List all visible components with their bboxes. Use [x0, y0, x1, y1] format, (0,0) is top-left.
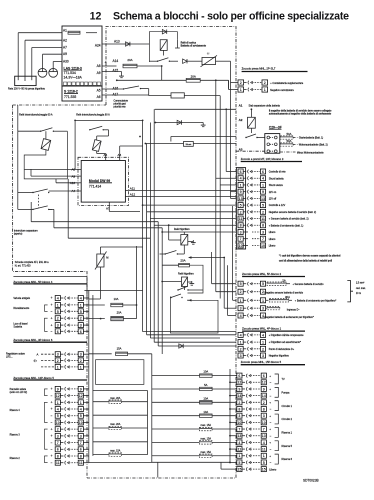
fuse 10A feed [152, 415, 200, 417]
wire A14 junction down [161, 66, 163, 80]
wire A8 to A14 fuse [102, 65, 117, 67]
svg-text:5: 5 [240, 204, 242, 208]
svg-text:Zoccolo presa MNL, 12P-blocco: Zoccolo presa MNL, 12P-blocco 5 [13, 376, 54, 380]
wire A5 to selector switch [102, 88, 123, 90]
svg-text:50A: 50A [287, 139, 292, 143]
svg-text:10A: 10A [203, 396, 208, 400]
5P-blocco2 pin 4 [238, 313, 243, 318]
fuse max. 15A feed [152, 441, 200, 443]
varistor R1 with arrows [202, 57, 216, 64]
svg-text:A9: A9 [97, 71, 101, 75]
module Modul DW 99 771.414 inner [81, 161, 125, 203]
svg-text:6: 6 [57, 330, 59, 334]
3P-blocco6 pin 2 [55, 358, 60, 363]
svg-text:Punto di derivazione D+: Punto di derivazione D+ [269, 348, 295, 351]
svg-text:12: 12 [262, 381, 266, 385]
svg-text:4: 4 [240, 314, 242, 318]
svg-text:Relè interruttore/scheggia 60: Relè interruttore/scheggia 60 A [19, 113, 53, 116]
svg-text:14,3V—18A: 14,3V—18A [64, 75, 83, 79]
svg-text:6: 6 [57, 448, 59, 452]
svg-text:Negativo sensore batteria di s: Negativo sensore batteria di servizio (b… [269, 211, 317, 214]
fuse 10A feed [152, 375, 200, 377]
svg-text:+ Sensore batteria di servizio: + Sensore batteria di servizio (batt. 2) [269, 218, 309, 221]
svg-text:−: − [51, 421, 53, 425]
svg-text:2: 2 [57, 359, 59, 363]
svg-text:5: 5 [238, 461, 240, 465]
svg-text:2: 2 [240, 81, 242, 85]
svg-text:6: 6 [80, 330, 82, 334]
module pin A12 [125, 196, 128, 198]
wire to modul pin A10 [56, 182, 78, 184]
svg-text:Rete 230 V~50 Hz presa frigori: Rete 230 V~50 Hz presa frigorifero [8, 87, 46, 90]
svg-text:9: 9 [238, 387, 240, 391]
svg-text:8: 8 [240, 224, 242, 228]
wire right col 5P4 down [84, 289, 88, 291]
svg-text:Negativo carrozzatura: Negativo carrozzatura [270, 89, 294, 92]
svg-text:(aperto): (aperto) [14, 233, 23, 236]
svg-text:A1: A1 [239, 104, 243, 108]
svg-text:+: + [51, 401, 53, 405]
gang dashed link [38, 195, 40, 208]
svg-text:+: + [269, 401, 271, 405]
10P pin 10 Libero [238, 243, 243, 248]
svg-text:A16: A16 [113, 86, 119, 90]
svg-text:+: + [269, 387, 271, 391]
ground bus 15P [229, 369, 231, 462]
svg-text:3: 3 [262, 307, 264, 311]
svg-text:11: 11 [261, 217, 265, 221]
svg-text:5: 5 [262, 204, 264, 208]
diode D1 on A13 line [126, 42, 130, 46]
bus to 4P connector wires [143, 331, 236, 333]
module pin A9 stub [78, 175, 81, 177]
svg-text:Riserva 6: Riserva 6 [282, 458, 293, 461]
wire main 12V rail [117, 79, 186, 81]
svg-text:11: 11 [79, 461, 83, 465]
svg-text:5: 5 [263, 461, 265, 465]
switch K2 [40, 131, 41, 132]
svg-text:9: 9 [263, 387, 265, 391]
4P-blocco1 pin 1 [238, 340, 243, 345]
10P pin 11 + Sensore batteria di servizio (batt. 2) [238, 216, 243, 221]
relay K2 coil [41, 139, 51, 151]
svg-text:Riserva 2: Riserva 2 [10, 457, 21, 460]
svg-text:+: + [51, 296, 53, 300]
10P pin 3 Libero [238, 229, 243, 234]
svg-text:Il negativo della batteria di: Il negativo della batteria di servizio d… [269, 110, 332, 113]
svg-text:15: 15 [262, 468, 266, 472]
feed fuse max20A a [93, 401, 109, 403]
wire to modul pin A9 [31, 175, 78, 177]
relay K3 above module [92, 140, 101, 152]
15P pin 6 [237, 373, 242, 378]
fridge box [188, 265, 204, 293]
left fuse 15A [89, 353, 112, 355]
svg-text:Relè frigorifero: Relè frigorifero [174, 228, 190, 231]
10P connector housing [236, 168, 245, 249]
15P pin 2 [237, 400, 242, 405]
wire bus y222 [30, 202, 32, 222]
svg-text:4: 4 [57, 407, 59, 411]
earth circle 2 [49, 68, 58, 77]
15P pin 12 [237, 380, 242, 385]
svg-text:+ Batteria di avviamento (batt: + Batteria di avviamento (batt. 1) [269, 224, 304, 227]
svg-text:1: 1 [264, 88, 266, 92]
svg-text:Riserva 4: Riserva 4 [10, 409, 21, 412]
svg-text:1,5 mm²: 1,5 mm² [356, 282, 365, 285]
svg-text:Shunt batteria: Shunt batteria [269, 177, 285, 180]
switch of charge relay [157, 61, 158, 62]
fuse 10A feed [152, 401, 200, 403]
svg-text:Scaletta: Scaletta [13, 326, 22, 329]
svg-text:12: 12 [79, 394, 83, 398]
svg-text:5: 5 [262, 282, 264, 286]
svg-text:10: 10 [262, 421, 266, 425]
wires into 10P connector [143, 204, 236, 206]
stub wires right of connectors [83, 297, 88, 299]
fridge relay 1 [181, 235, 188, 246]
separator relay switch [245, 137, 246, 138]
right drop wires [216, 177, 236, 179]
svg-text:priorità rete: priorità rete [114, 106, 127, 109]
svg-text:20A: 20A [117, 311, 122, 315]
module pin A11 [125, 190, 128, 192]
svg-text:4: 4 [80, 407, 82, 411]
svg-text:3: 3 [57, 353, 59, 357]
module pin A10 stub [78, 182, 81, 184]
module pin A4 stub [78, 190, 81, 192]
svg-text:max. 15A: max. 15A [201, 438, 212, 441]
svg-text:M: M [106, 256, 108, 260]
svg-text:5: 5 [57, 310, 59, 314]
svg-text:−: − [51, 310, 53, 314]
svg-text:6: 6 [238, 374, 240, 378]
15P pin 4 [237, 440, 242, 445]
module pin A8 stub [78, 168, 81, 170]
ground fridge relay 1 [188, 241, 193, 243]
svg-text:13: 13 [237, 434, 241, 438]
svg-text:−: − [270, 447, 272, 451]
left feeder bus [151, 354, 153, 463]
wire from boundary to switch K2 [17, 105, 19, 131]
svg-text:2: 2 [262, 347, 264, 351]
wire A2 to mains plug [25, 39, 62, 41]
15P pin 15 [237, 467, 242, 472]
svg-text:13: 13 [261, 197, 265, 201]
svg-text:10 m: 10 m [356, 293, 361, 295]
svg-text:11: 11 [262, 448, 266, 452]
svg-text:SDT0023B: SDT0023B [303, 479, 319, 483]
svg-text:1: 1 [240, 88, 242, 92]
svg-text:−: − [270, 434, 272, 438]
5P-blocco2 pin 3 [238, 306, 243, 311]
wire into fridge relay 1 [168, 225, 170, 240]
svg-text:+ Contabatteria supplementare: + Contabatteria supplementare [270, 82, 304, 85]
diode D5 with ground [155, 122, 200, 124]
svg-text:Riscaldamento: Riscaldamento [13, 307, 29, 310]
bracket 5P4 b [45, 318, 48, 331]
bottom-left wire rectangle [96, 360, 144, 385]
svg-text:A13: A13 [114, 40, 120, 44]
staircase wires into 5P blocco2 [211, 252, 213, 284]
svg-text:1: 1 [262, 341, 264, 345]
svg-text:7: 7 [263, 427, 265, 431]
svg-text:6: 6 [262, 170, 264, 174]
svg-text:A9: A9 [63, 52, 67, 56]
svg-text:1: 1 [57, 401, 59, 405]
svg-text:Minus Wohnraumbatterie: Minus Wohnraumbatterie [297, 151, 324, 154]
svg-text:2: 2 [240, 210, 242, 214]
svg-text:6: 6 [263, 374, 265, 378]
arrow feed wire 1 [191, 257, 225, 259]
svg-text:−: − [270, 394, 272, 398]
svg-text:5: 5 [57, 414, 59, 418]
wire to modul pin A4 [49, 190, 78, 192]
svg-text:A: A [37, 352, 39, 356]
svg-text:7: 7 [240, 237, 242, 241]
svg-text:6: 6 [240, 170, 242, 174]
4P-blocco1 pin 3 [238, 353, 243, 358]
svg-text:10A: 10A [203, 370, 208, 374]
svg-text:1: 1 [80, 401, 82, 405]
fridge relay 2 [182, 277, 188, 287]
svg-text:1: 1 [262, 183, 264, 187]
15P pin 11 [237, 447, 242, 452]
center bus wires [136, 246, 138, 319]
svg-text:15A: 15A [117, 347, 122, 351]
fuse 30A start battery [266, 299, 269, 301]
negative return bus [147, 391, 149, 455]
svg-text:8: 8 [262, 224, 264, 228]
2P-SL7 pin 2 [238, 80, 244, 85]
svg-text:20A: 20A [127, 58, 132, 62]
svg-text:max. 15A: max. 15A [201, 424, 212, 427]
svg-text:* I cavi del frigorifero devon: * I cavi del frigorifero devono essere s… [279, 254, 341, 257]
svg-text:8: 8 [238, 407, 240, 411]
svg-text:2: 2 [80, 317, 82, 321]
svg-text:5: 5 [240, 282, 242, 286]
5P-blocco2 pin 5 [238, 281, 243, 286]
svg-text:10A: 10A [203, 410, 208, 414]
collector bus B [92, 295, 94, 456]
svg-text:13: 13 [262, 434, 266, 438]
svg-text:7: 7 [238, 427, 240, 431]
wire top 5P4 [13, 275, 87, 277]
svg-text:−: − [270, 421, 272, 425]
5P-blocco2 pin 2 [238, 289, 243, 294]
svg-text:1: 1 [80, 303, 82, 307]
wire A6 to selector switch [102, 94, 149, 96]
ground fridge relay 2 [188, 281, 192, 283]
svg-text:−: − [270, 461, 272, 465]
svg-text:3: 3 [80, 434, 82, 438]
wire A9 to earth circle 1 [43, 53, 63, 55]
svg-text:7: 7 [80, 441, 82, 445]
10P pin 5 Controllo a 12V [238, 203, 243, 208]
svg-text:Zoccolo presa MNL, 2P-SL7: Zoccolo presa MNL, 2P-SL7 [242, 67, 276, 71]
5P-blocco2 pin 1 [238, 298, 243, 303]
svg-text:6: 6 [80, 448, 82, 452]
wire into fridge relay 2 [162, 281, 181, 283]
separator ganged switch lower [32, 209, 33, 210]
feed loop box [170, 297, 218, 334]
svg-text:12: 12 [56, 394, 60, 398]
svg-text:3: 3 [240, 354, 242, 358]
svg-text:10: 10 [239, 244, 243, 248]
svg-text:LAS 1218-3: LAS 1218-3 [64, 66, 82, 70]
svg-text:A17: A17 [113, 93, 119, 97]
svg-text:−: − [270, 407, 272, 411]
svg-text:A8: A8 [97, 64, 101, 68]
svg-text:4: 4 [238, 441, 240, 445]
svg-text:1: 1 [240, 183, 242, 187]
mains/gas priority selector switch [123, 88, 124, 89]
svg-text:+: + [51, 387, 53, 391]
svg-text:771.534: 771.534 [64, 71, 76, 75]
svg-text:5: 5 [80, 310, 82, 314]
wire loop left relay [24, 131, 67, 179]
wire left drop to lower switch [17, 193, 19, 210]
fridge relay 1 switch [165, 253, 166, 254]
svg-text:A14: A14 [113, 59, 119, 63]
ingresso D+ fuse wire [267, 307, 280, 310]
svg-text:Circuito 2: Circuito 2 [282, 418, 293, 421]
wire thermal sensor to valve pin [99, 267, 101, 299]
svg-text:11: 11 [237, 448, 241, 452]
svg-text:+: + [269, 454, 271, 458]
svg-text:3: 3 [240, 230, 242, 234]
svg-text:771.414: 771.414 [89, 185, 101, 189]
negative wire 12P pin11 to ground bus [89, 462, 152, 464]
svg-text:A24: A24 [95, 44, 101, 48]
svg-text:A10: A10 [70, 181, 76, 185]
bracket 5P4 a [45, 305, 48, 311]
svg-text:−: − [270, 380, 272, 384]
svg-text:TV: TV [282, 378, 286, 381]
svg-text:cavi di alimentazione dalla ba: cavi di alimentazione dalla batteria ai … [279, 259, 332, 262]
svg-text:1: 1 [57, 365, 59, 369]
svg-text:12: 12 [237, 381, 241, 385]
feed fuse max20A b [93, 427, 109, 429]
svg-text:4: 4 [262, 333, 264, 337]
svg-text:20A: 20A [180, 259, 185, 263]
svg-text:771.535: 771.535 [64, 95, 76, 99]
svg-text:+: + [51, 316, 53, 320]
svg-text:max. 20A: max. 20A [110, 423, 121, 426]
svg-text:2: 2 [80, 428, 82, 432]
svg-text:+: + [269, 414, 271, 418]
svg-text:8: 8 [80, 454, 82, 458]
3P-blocco6 pin 1 [55, 364, 60, 369]
svg-text:+: + [51, 407, 53, 411]
svg-text:4: 4 [262, 177, 264, 181]
svg-text:2: 2 [240, 290, 242, 294]
10P pin 8 + Batteria di avviamento (batt. 1) [238, 223, 243, 228]
solar minus wire [41, 366, 55, 368]
stub 15P pin 15 [221, 468, 237, 470]
svg-text:3: 3 [262, 230, 264, 234]
wire drop 2P [228, 80, 230, 89]
fuse 5A feed [152, 388, 200, 390]
svg-text:+: + [51, 454, 53, 458]
svg-text:↑↑: ↑↑ [207, 51, 211, 55]
svg-text:automaticamente al negativo de: automaticamente al negativo della batter… [269, 113, 332, 116]
diode D4 on bus [179, 344, 183, 348]
svg-text:A2: A2 [239, 118, 243, 122]
4P-blocco1 pin 2 [238, 346, 243, 351]
15P pin 1 [237, 453, 242, 458]
svg-text:2: 2 [240, 347, 242, 351]
svg-text:14: 14 [237, 394, 241, 398]
svg-text:4: 4 [240, 177, 242, 181]
fuse block C20-3F [265, 134, 280, 154]
svg-text:12V on: 12V on [269, 191, 277, 194]
svg-text:Circuito 1: Circuito 1 [282, 405, 293, 408]
svg-text:((○: ((○ [34, 359, 38, 363]
svg-text:LRS...: LRS... [6, 356, 13, 359]
wire module A11 right [129, 190, 236, 192]
svg-text:Ingresso D−: Ingresso D− [287, 309, 301, 312]
svg-text:8: 8 [57, 454, 59, 458]
wire from selector to series resistor [149, 95, 171, 97]
second fridge switch [170, 297, 171, 298]
svg-text:3: 3 [263, 414, 265, 418]
10P pin 1 Shunt utenze [238, 182, 243, 187]
svg-text:A6: A6 [97, 95, 101, 99]
svg-text:Stab separatore della batteria: Stab separatore della batteria [249, 105, 281, 108]
drop to bottom border [157, 462, 159, 477]
charger unit LAS 1218-3 771.534 box [62, 26, 102, 86]
mains plug 230V socket [15, 76, 36, 85]
svg-text:Shunt utenze: Shunt utenze [269, 184, 284, 187]
svg-text:3: 3 [80, 353, 82, 357]
separator ganged switch upper [32, 192, 33, 193]
svg-text:(solo con LR 02): (solo con LR 02) [10, 391, 28, 394]
left fuse 10A [89, 304, 105, 306]
svg-text:14: 14 [262, 394, 266, 398]
brackets 12P [45, 389, 48, 396]
svg-text:−: − [51, 330, 53, 334]
svg-text:+ Frigorifero AES/a compressor: + Frigorifero AES/a compressore [269, 334, 304, 337]
svg-text:12: 12 [90, 11, 102, 23]
fuse max. 15A feed [152, 455, 200, 457]
svg-text:– Wohnraumbatterie (Batt. 2): – Wohnraumbatterie (Batt. 2) [297, 144, 328, 147]
svg-text:8: 8 [263, 407, 265, 411]
svg-text:Riserva 1: Riserva 1 [282, 431, 293, 434]
wire module A12 right [129, 196, 236, 198]
15P pin 14 [237, 393, 242, 398]
svg-text:50A: 50A [287, 132, 292, 136]
cable size bracket [347, 281, 353, 302]
15P pin 9 [237, 386, 242, 391]
wire bus to center y290 [89, 289, 143, 291]
fuse max. 15A feed [152, 428, 200, 430]
10P pin 9 12V on [238, 189, 243, 194]
svg-text:cad. max.: cad. max. [356, 288, 366, 290]
feed fuse max15A c [93, 454, 109, 456]
svg-text:−: − [51, 414, 53, 418]
svg-text:2: 2 [263, 401, 265, 405]
svg-text:Relè frigorifero: Relè frigorifero [178, 273, 194, 276]
15P pin 5 [237, 460, 242, 465]
module Modul DW 99 771.414 outer [78, 157, 129, 205]
svg-text:Batteria di avviamento: Batteria di avviamento [181, 45, 207, 48]
15P pin 3 [237, 413, 242, 418]
svg-text:Controllo di rete: Controllo di rete [269, 171, 287, 174]
10P pin 7 Libero [238, 236, 243, 241]
svg-text:3: 3 [238, 414, 240, 418]
svg-text:2: 2 [57, 317, 59, 321]
